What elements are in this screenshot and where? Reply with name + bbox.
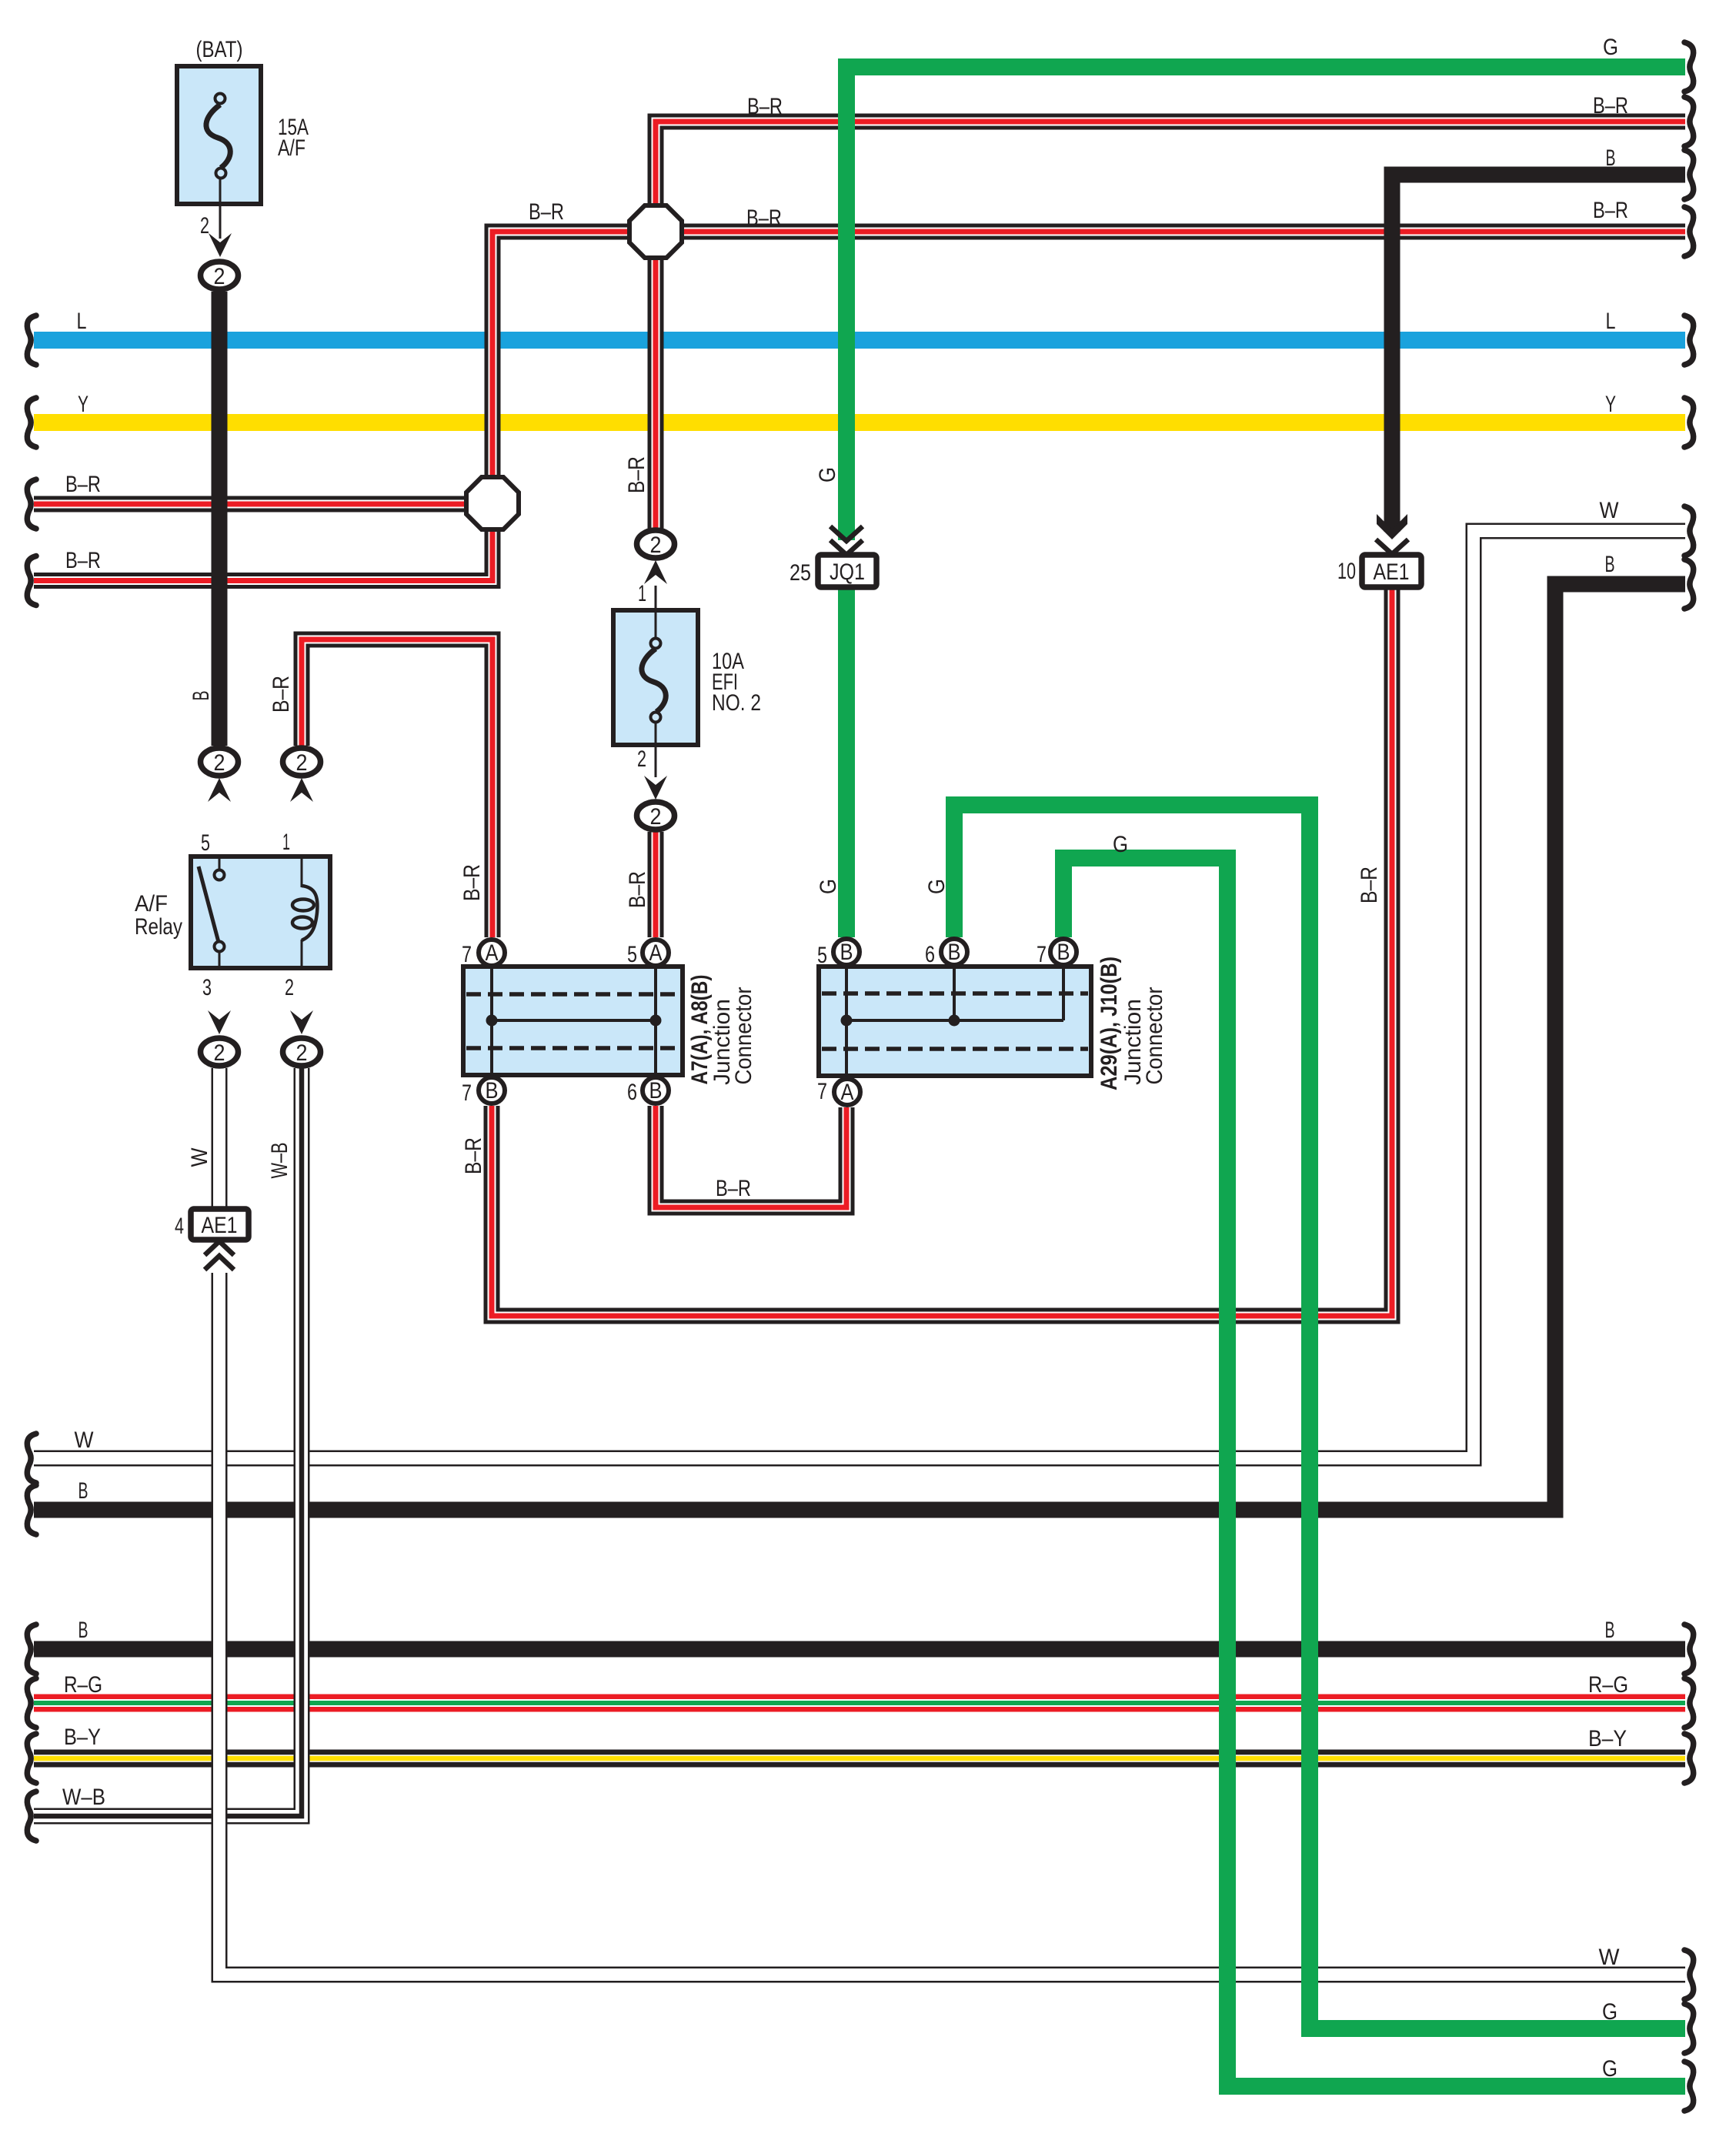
svg-text:W: W <box>187 1147 212 1167</box>
wire G pin 7B loop to bottom right edge <box>1063 858 1685 2086</box>
svg-text:1: 1 <box>282 830 290 855</box>
arrow into AE1 pin 10 (B wire tip) <box>1377 514 1407 539</box>
svg-text:7: 7 <box>817 1079 827 1104</box>
splice connector oval 2 at (285,1367) <box>201 1038 239 1066</box>
wire B-R octagon 1 down to oval <box>648 258 664 529</box>
svg-text:A/F: A/F <box>278 135 305 161</box>
wire continuation brace at y=2143 right <box>1684 1624 1694 1674</box>
relay A/F box <box>191 856 330 968</box>
wire continuation brace at y=2711 right <box>1684 2062 1694 2111</box>
svg-text:2: 2 <box>214 264 225 289</box>
svg-text:7: 7 <box>1037 942 1047 967</box>
svg-text:10: 10 <box>1337 559 1356 584</box>
svg-text:G: G <box>815 467 840 482</box>
wire B-R EFI oval down to pin 5A <box>648 832 664 937</box>
svg-text:A/F: A/F <box>135 891 168 917</box>
svg-text:R–G: R–G <box>64 1672 102 1698</box>
arrow down into oval (relay pin 3) <box>208 1010 231 1034</box>
fuse 15A A/F box <box>177 66 261 204</box>
wire B-R relay pin1 up over to pin 7A <box>302 639 492 937</box>
fuse 10A element <box>642 649 666 712</box>
wire W-B from relay down and left to edge <box>34 1068 302 1816</box>
junction connector 2 dashed lines <box>822 991 1088 996</box>
relay coil <box>302 886 317 940</box>
splice connector oval 2 at (285,990) <box>201 748 239 776</box>
svg-text:5: 5 <box>817 943 827 968</box>
wire B-R top horizontal with corner at octagon 1 <box>656 122 1685 205</box>
arrow up into oval (EFI fuse pin 1) <box>644 560 667 584</box>
connector box AE1 pin 4 <box>191 1209 249 1240</box>
svg-text:Y: Y <box>1605 392 1616 417</box>
svg-text:B–R: B–R <box>746 205 782 231</box>
svg-text:W: W <box>1599 1945 1621 1970</box>
wire continuation brace at y=2143 left <box>27 1624 36 1674</box>
svg-text:B: B <box>189 691 214 701</box>
wire continuation brace at y=2636 right <box>1684 2004 1694 2053</box>
wire continuation brace at y=759 right <box>1684 559 1694 609</box>
relay switch arm <box>199 866 219 945</box>
svg-text:2: 2 <box>200 213 209 239</box>
svg-text:B–R: B–R <box>1357 866 1382 903</box>
connector box AE1 pin 10 <box>1362 555 1421 587</box>
svg-text:A: A <box>649 940 663 966</box>
svg-text:W–B: W–B <box>62 1785 105 1810</box>
svg-text:B–Y: B–Y <box>1588 1726 1627 1751</box>
svg-text:2: 2 <box>214 1040 225 1066</box>
svg-text:G: G <box>1602 1999 1617 2025</box>
splice connector oval 2 at (285,358) <box>201 262 239 289</box>
relay coil pin 1 stub <box>301 856 303 887</box>
svg-text:2: 2 <box>650 804 662 830</box>
junction connector 1 internal pin lines <box>490 967 493 1075</box>
svg-text:Relay: Relay <box>135 914 182 940</box>
svg-text:JQ1: JQ1 <box>830 559 865 585</box>
pin circle A at (639,1238) <box>479 940 505 966</box>
wire B-Y bottom horizontal <box>34 1750 1685 1768</box>
wire fuse 10A pin 2 lead <box>655 722 657 777</box>
pin circle B at (1240,1237) <box>941 939 967 965</box>
fuse 10A EFI NO.2 box <box>613 610 698 745</box>
wire continuation brace at y=1895 left <box>27 1434 36 1483</box>
svg-text:AE1: AE1 <box>202 1213 238 1238</box>
splice connector oval 2 at (852,1060) <box>637 802 675 830</box>
relay switch pin 5 stub <box>219 856 221 870</box>
relay coil pin 2 stub <box>301 940 303 968</box>
arrow down into oval (relay pin 2) <box>290 1010 313 1034</box>
junction connector 2 junction dots <box>841 1015 853 1027</box>
svg-text:2: 2 <box>214 750 225 776</box>
svg-text:B: B <box>486 1078 499 1104</box>
svg-text:G: G <box>924 879 950 894</box>
wire B bottom full horizontal <box>34 1641 1685 1658</box>
wire fuse 10A pin 1 lead <box>655 586 657 639</box>
svg-text:B: B <box>948 940 961 965</box>
svg-text:B–R: B–R <box>269 676 294 713</box>
wire R-G bottom horizontal <box>34 1695 1685 1712</box>
svg-text:B–R: B–R <box>747 94 783 119</box>
junction connector 2 internal pin lines <box>845 967 848 1076</box>
wire continuation brace at y=87 right <box>1684 42 1694 92</box>
arrow up into oval (relay pin 1) <box>290 778 313 802</box>
svg-text:W: W <box>75 1427 95 1453</box>
wire G JQ1 to pin 5B <box>838 587 855 937</box>
svg-text:2: 2 <box>296 1040 308 1066</box>
svg-text:G: G <box>816 879 841 894</box>
splice connector oval 2 at (392,990) <box>283 748 321 776</box>
svg-text:NO. 2: NO. 2 <box>712 690 761 716</box>
wire continuation brace at y=2285 right <box>1684 1734 1694 1783</box>
svg-text:B: B <box>1605 552 1615 577</box>
svg-text:G: G <box>1602 2056 1617 2082</box>
wire continuation brace at y=754.5 left <box>27 556 36 606</box>
svg-text:2: 2 <box>650 533 662 558</box>
wire continuation brace at y=442 left <box>27 316 36 365</box>
svg-text:B: B <box>649 1078 663 1104</box>
arrow down into oval (EFI fuse pin 2) <box>644 776 667 800</box>
pin circle B at (1382,1237) <box>1050 939 1077 965</box>
junction connector 1 bus line <box>492 1019 656 1022</box>
svg-text:G: G <box>1603 35 1618 60</box>
splice connector oval 2 at (392,1367) <box>283 1038 321 1066</box>
wire continuation brace at y=2285 left <box>27 1734 36 1783</box>
svg-text:2: 2 <box>637 746 646 772</box>
svg-text:B–R: B–R <box>625 871 650 908</box>
svg-text:G: G <box>1113 832 1128 857</box>
svg-text:2: 2 <box>285 975 294 1000</box>
fuse 15A A/F element <box>206 105 230 168</box>
wire continuation brace at y=2360 left <box>27 1791 36 1841</box>
svg-text:B: B <box>78 1478 88 1504</box>
svg-text:B–R: B–R <box>529 199 564 225</box>
wire continuation brace at y=158 right <box>1684 97 1694 146</box>
svg-text:W: W <box>1600 498 1620 523</box>
svg-text:B: B <box>1606 145 1616 171</box>
wire continuation brace at y=690 right <box>1684 506 1694 556</box>
svg-text:L: L <box>77 309 87 334</box>
wire continuation brace at y=655 left <box>27 479 36 529</box>
wire B battery vertical <box>212 292 228 746</box>
svg-text:B–R: B–R <box>461 1137 486 1174</box>
splice connector oval 2 at (852,707) <box>637 530 675 558</box>
svg-text:B: B <box>1605 1618 1615 1643</box>
wire L (blue) left edge to right edge <box>34 332 1685 349</box>
wire continuation brace at y=301 right <box>1684 207 1694 256</box>
wire continuation brace at y=549 left <box>27 398 36 447</box>
svg-text:B: B <box>840 940 853 965</box>
svg-text:A: A <box>841 1080 854 1105</box>
junction connector 2 bus line <box>846 1019 1063 1022</box>
svg-text:B–Y: B–Y <box>64 1725 101 1750</box>
svg-text:W–B: W–B <box>267 1143 292 1179</box>
wire G top horizontal and JQ1 vertical <box>846 67 1685 540</box>
wire B-R from octagon 1 left down to octagon 2 <box>492 232 629 477</box>
wire fuse 15A pin 2 lead <box>219 178 222 239</box>
svg-text:3: 3 <box>202 975 212 1000</box>
svg-text:B–R: B–R <box>624 456 649 493</box>
svg-text:B–R: B–R <box>459 864 485 901</box>
pin circle B at (852,1417) <box>643 1077 669 1104</box>
svg-text:B: B <box>1057 940 1070 965</box>
svg-text:5: 5 <box>201 830 210 856</box>
pin circle B at (1100,1237) <box>833 939 860 965</box>
pin circle B at (639,1417) <box>479 1077 505 1104</box>
wire B-R from pin 7B long run to AE1 <box>492 587 1392 1316</box>
svg-text:1: 1 <box>638 581 646 606</box>
svg-text:B–R: B–R <box>65 472 101 497</box>
wire Y (yellow) left edge to right edge <box>34 414 1685 431</box>
junction connector 1 dashed lines <box>466 992 679 997</box>
svg-text:A29(A), J10(B): A29(A), J10(B) <box>1097 957 1122 1090</box>
wire B right vertical and bottom horizontal <box>34 584 1685 1510</box>
relay switch contacts <box>215 870 225 880</box>
svg-text:6: 6 <box>925 942 935 967</box>
arrow down into oval (battery feed) <box>209 233 232 257</box>
svg-text:7: 7 <box>462 1080 472 1106</box>
wire W from AE1 down and right to edge <box>212 1068 228 1209</box>
relay switch pin 3 stub <box>219 951 221 968</box>
wire B-R left edge to octagon 2 <box>34 496 466 513</box>
pin circle A at (1101,1419) <box>834 1079 860 1105</box>
node octagon junction 2 <box>466 477 519 529</box>
wire continuation brace at y=442 right <box>1684 316 1694 365</box>
wire continuation brace at y=227 right <box>1684 150 1694 199</box>
svg-text:Connector: Connector <box>1142 987 1167 1084</box>
arrow chevrons into JQ1 <box>830 526 863 541</box>
wire continuation brace at y=2566 right <box>1684 1950 1694 1999</box>
junction connector A7(A),A8(B) box <box>463 967 683 1075</box>
svg-text:R–G: R–G <box>1588 1672 1628 1698</box>
svg-text:Connector: Connector <box>731 987 756 1084</box>
svg-text:B–R: B–R <box>1593 198 1628 223</box>
connector box JQ1 <box>818 555 876 587</box>
svg-text:(BAT): (BAT) <box>196 37 243 62</box>
wire B-R right horizontal from octagon 1 <box>682 224 1685 240</box>
arrow up into oval (relay pin 5) <box>208 778 231 802</box>
wire B-R from pin 6B to pin 7A of connector 2 <box>656 1106 846 1207</box>
svg-text:A: A <box>486 940 499 966</box>
pin circle A at (852,1238) <box>643 940 669 966</box>
svg-text:AE1: AE1 <box>1374 559 1410 585</box>
wire B top right to AE1 <box>1392 175 1685 532</box>
arrow chevrons out of AE1 pin 4 <box>205 1241 234 1255</box>
wire B-R from octagon 2 bottom to left edge <box>34 529 492 581</box>
svg-text:6: 6 <box>627 1080 637 1105</box>
svg-text:4: 4 <box>175 1214 184 1239</box>
junction connector A29(A),J10(B) box <box>819 967 1091 1076</box>
svg-text:B–R: B–R <box>716 1176 751 1201</box>
svg-text:B–R: B–R <box>1593 93 1628 119</box>
wire continuation brace at y=2213 left <box>27 1678 36 1728</box>
wire G pin 6B loop to bottom right edge <box>954 805 1685 2028</box>
wire continuation brace at y=549 right <box>1684 398 1694 447</box>
svg-text:7: 7 <box>462 942 472 967</box>
wire continuation brace at y=2213 right <box>1684 1678 1694 1728</box>
svg-text:B: B <box>78 1618 88 1643</box>
svg-text:2: 2 <box>296 750 308 776</box>
svg-text:25: 25 <box>790 560 811 586</box>
svg-text:L: L <box>1606 309 1616 334</box>
svg-text:B–R: B–R <box>65 548 101 573</box>
svg-text:Y: Y <box>78 392 88 417</box>
svg-text:5: 5 <box>627 942 637 967</box>
node octagon junction 1 <box>629 205 682 258</box>
wire W long loop left edge to right edge <box>34 531 1685 1458</box>
wire continuation brace at y=1962 left <box>27 1485 36 1534</box>
junction connector 1 junction dots <box>486 1015 498 1027</box>
